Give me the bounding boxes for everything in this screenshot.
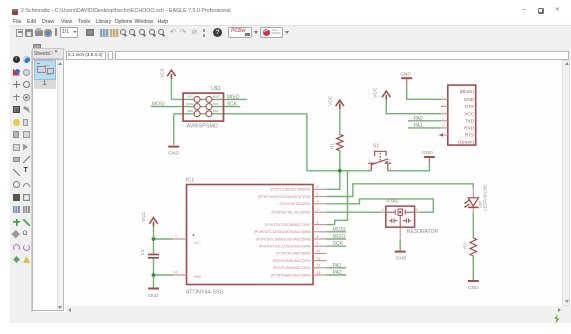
wire U$1 GND drop [173,114,175,145]
svg-text:RTS: RTS [465,133,474,138]
svg-text:(PCINT11/RESET/DW)PB3: (PCINT11/RESET/DW)PB3 [270,188,310,192]
svg-text:RXD: RXD [464,126,474,131]
svg-text:6: 6 [317,220,319,224]
svg-text:RESONATOR: RESONATOR [407,229,439,235]
wire SCK stub pin9 [326,245,346,247]
svg-text:VCC: VCC [187,95,193,99]
svg-text:7: 7 [317,228,319,232]
svg-text:GND: GND [468,285,479,291]
title bar [0,0,571,16]
wire resonator to GND [399,240,401,251]
svg-text:10: 10 [317,249,321,253]
thumbnail [34,60,56,80]
canvas [65,60,562,306]
svg-text:2: 2 [416,208,418,212]
wire R1 top to VCC [339,100,341,135]
connector U$1 AVRISPSMD [183,93,223,121]
wire R2 to GND [472,256,474,281]
svg-text:AVRISPSMD: AVRISPSMD [187,124,218,130]
sheets scrollbar [57,60,64,310]
DRC green bolt [552,314,562,324]
svg-text:U$1: U$1 [211,86,221,92]
svg-text:5: 5 [317,192,319,196]
wire U$1 row3 GND-RST [174,113,307,115]
svg-text:MOSI: MOSI [186,102,193,106]
h scrollbar + status band [65,306,571,313]
svg-text:(PCINT5/OC1B/MISO/DO/ADC5)PA5: (PCINT5/OC1B/MISO/DO/ADC5)PA5 [256,237,311,241]
IC1 pin 14 [173,274,187,276]
svg-text:C1: C1 [140,249,145,255]
svg-text:GND: GND [194,275,202,279]
v scrollbar [562,60,570,306]
svg-text:4: 4 [390,167,392,171]
wire pin1 branch [154,238,174,240]
svg-text:RST: RST [213,109,219,113]
wire PA1 stub pin12 [326,267,346,269]
wire MISO stub pin8 [326,238,346,240]
svg-text:4: 4 [442,117,444,121]
svg-text:VCC: VCC [194,241,202,245]
svg-text:GND: GND [147,293,158,299]
svg-text:1: 1 [368,159,370,163]
supply VCC at U$1 [167,70,175,79]
svg-text:2: 2 [368,167,370,171]
svg-text:(PCINT9/XTAL2)PB1: (PCINT9/XTAL2)PB1 [280,202,311,206]
svg-text:12: 12 [317,264,321,268]
svg-text:TXD: TXD [465,119,475,124]
wire PA7 tap vertical [335,171,348,225]
svg-text:ATTINY44-SSU: ATTINY44-SSU [186,290,224,296]
wire FTDI VCC [386,99,441,114]
IC1 pin 1 [173,238,187,240]
coordinate row [65,49,571,60]
wire junction2 to GND [153,275,155,288]
svg-text:MOSI: MOSI [152,101,165,107]
wire U$1 row2 MOSI-SCK [151,106,241,108]
capacitor C1 [148,254,159,256]
junction IC pin14 [152,273,156,277]
menu bar [10,16,571,25]
svg-text:(PCINT1/AIN0/ADC1)PA1: (PCINT1/AIN0/ADC1)PA1 [273,266,311,270]
svg-text:SCK: SCK [227,102,238,108]
wire pin14 branch [154,274,174,276]
svg-text:5: 5 [442,124,444,128]
connector FTDI header [448,85,476,145]
LED U$5 [472,188,474,197]
svg-text:GND: GND [168,151,179,157]
ground at R2 [468,280,479,282]
wire IC pin5 to LED [326,184,473,197]
wire R1 bottom to junction [339,151,341,171]
svg-text:R2: R2 [463,243,468,249]
svg-text:MISO: MISO [213,95,221,99]
svg-text:S1: S1 [373,143,379,149]
svg-text:VCC: VCC [327,95,333,106]
resonator pins [382,212,419,239]
ground at C1 [148,288,159,290]
svg-text:1: 1 [175,235,177,239]
wire IC pin6 stub [326,224,334,226]
switch S1 [368,151,391,171]
svg-text:3: 3 [442,110,444,114]
svg-text:IC1: IC1 [186,177,194,183]
IC1 pin numbers [174,185,321,275]
wire FTDI GND [407,87,441,100]
svg-text:(PCINT6/OC1A/SDA/MOSI/ADC6)PA6: (PCINT6/OC1A/SDA/MOSI/ADC6)PA6 [254,230,311,234]
svg-text:9: 9 [317,242,319,246]
svg-text:VCC: VCC [464,111,474,116]
wire VCC to IC pin1 [153,226,155,239]
svg-text:(PCINT7/ICP/OC0B/ADC7)PA7: (PCINT7/ICP/OC0B/ADC7)PA7 [265,223,311,227]
svg-text:13: 13 [317,271,321,275]
svg-text:PA1: PA1 [333,263,342,269]
svg-text:GND: GND [396,256,407,262]
wire RST net vertical [306,114,308,171]
svg-text:(Green): (Green) [458,139,474,144]
wire IC pin4 to junction [326,171,339,190]
junction reset net [338,169,342,173]
svg-text:PA0: PA0 [333,270,342,276]
wire U$1 row1 VCC-MISO [171,98,247,100]
sheets panel [32,48,64,59]
svg-text:4: 4 [317,185,319,189]
svg-text:XTAL: XTAL [386,198,398,204]
supply VCC at R1 [336,100,344,109]
IC1 pins right [173,189,326,275]
IC1 pin labels [254,188,311,278]
svg-text:(PCINT8/XTAL1/CLKI)PB0: (PCINT8/XTAL1/CLKI)PB0 [271,211,310,215]
junction IC pin1 [152,237,156,241]
generated icon grid [13,56,20,63]
wire PA0 stub pin13 [326,274,346,276]
svg-text:1: 1 [442,95,444,99]
svg-text:(PCINT3/T0/ADC3)PA3: (PCINT3/T0/ADC3)PA3 [276,252,311,256]
resistor R2 [470,238,476,256]
svg-text:VCC: VCC [160,67,166,78]
svg-text:SCK: SCK [333,241,344,247]
svg-text:GND: GND [464,97,475,102]
svg-text:VCC: VCC [373,87,379,98]
svg-text:2: 2 [317,208,319,212]
svg-text:R1: R1 [330,143,335,149]
svg-text:3: 3 [317,200,319,204]
svg-text:GND: GND [187,109,193,113]
supply VCC at IC1 [149,218,157,227]
ground at U$1 [168,146,179,148]
wire S1 to GND corner [388,162,430,171]
svg-text:PA1: PA1 [414,123,423,129]
ground at resonator [395,251,406,253]
svg-text:MISO: MISO [227,94,240,100]
svg-text:PA0: PA0 [414,116,423,122]
svg-text:SCK: SCK [213,102,219,106]
svg-text:8: 8 [317,235,319,239]
wire IC pin3 to resonator pin2 [326,199,433,212]
wire VCC to U$1 pin VCC [170,79,172,99]
svg-text:VCC: VCC [141,211,147,222]
toolbar row2 icon [33,44,41,51]
svg-text:(PCINT4/T1/SCL/USCK/ADC4)PA4: (PCINT4/T1/SCL/USCK/ADC4)PA4 [259,245,311,249]
svg-text:CTS: CTS [465,104,474,109]
left tool strip [10,50,32,312]
wire LED to R2 [472,213,474,238]
wire MOSI stub pin7 [326,231,346,233]
svg-text:(PCINT2/AIN1/ADC2)PA2: (PCINT2/AIN1/ADC2)PA2 [273,259,311,263]
wire IC pin2 to resonator pin1 [326,211,381,213]
supply VCC at FTDI [382,91,390,99]
resistor R1 [337,134,343,150]
svg-text:MISO: MISO [333,234,346,240]
IC1 ATTINY44-SSU [187,185,314,285]
wire junction to C1 [153,239,155,254]
svg-text:GND: GND [422,150,433,156]
resonator U$4 XTAL [386,206,415,227]
wire FTDI RXD PA1 [408,127,441,129]
svg-text:2: 2 [442,102,444,106]
ground at FTDI (rotated) [401,77,412,79]
FTDI RTS arrow [439,133,443,136]
svg-text:MOSI: MOSI [333,227,346,233]
wire RST net horizontal [307,170,340,172]
ground at S1 (rotated) [424,156,435,158]
svg-text:11: 11 [317,256,321,260]
wire junction to S1 [340,170,372,172]
svg-text:14: 14 [174,271,178,275]
svg-text:(PCINT10/INT0/OC0A/CKOUT)PB2: (PCINT10/INT0/OC0A/CKOUT)PB2 [258,195,311,199]
wire C1 to pin14 junction [153,258,155,275]
svg-text:3: 3 [389,159,391,163]
svg-text:(PCINT0/AREF/ADC0)PA0: (PCINT0/AREF/ADC0)PA0 [271,273,310,277]
svg-text:GND: GND [400,71,411,77]
svg-text:LEDFAB1206: LEDFAB1206 [483,184,488,211]
svg-text:1: 1 [382,208,384,212]
svg-text:(Black): (Black) [460,89,475,94]
toolbar band [10,25,571,51]
wire FTDI TXD PA0 [408,120,441,122]
